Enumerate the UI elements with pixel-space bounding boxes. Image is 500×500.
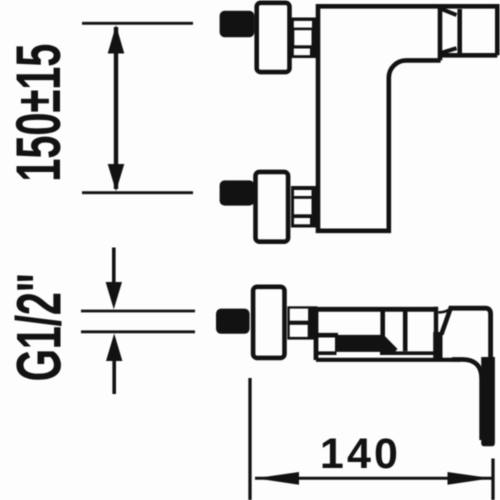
svg-text:150±15: 150±15 [5,44,74,182]
svg-text:G1/2": G1/2" [5,273,74,381]
svg-text:140: 140 [320,430,401,478]
